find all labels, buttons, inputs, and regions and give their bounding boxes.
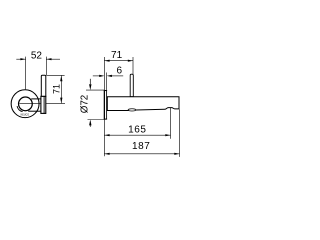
wire tube top line left view — [31, 98, 41, 100]
dimension 71 right view line and arrows — [104, 60, 133, 62]
spout circle left view — [19, 97, 33, 111]
dimension 187 line and arrows — [104, 153, 179, 155]
svg-text:165: 165 — [128, 125, 146, 136]
node centerline left view — [20, 102, 66, 104]
svg-text:52: 52 — [31, 50, 43, 61]
dimension 6 extension line — [106, 73, 108, 91]
dimension 71 right view extension lines — [103, 57, 105, 90]
dimension 165 extension lines — [103, 120, 105, 157]
lever handle right view — [130, 74, 133, 96]
dimension O72 line and arrows — [89, 79, 91, 84]
wall flange plate right view — [103, 90, 105, 119]
body block left view — [41, 96, 46, 113]
cartridge dome under spout — [128, 109, 136, 111]
dimension 52 line and arrows — [16, 58, 25, 60]
dimension 71 left view extension line top — [46, 74, 64, 76]
svg-text:71: 71 — [52, 84, 62, 94]
dimension 187 extension line — [179, 109, 181, 156]
dimension 71 left view line and arrows — [60, 75, 62, 103]
svg-text:Ø72: Ø72 — [80, 95, 91, 114]
svg-text:187: 187 — [132, 141, 150, 152]
svg-text:71: 71 — [111, 50, 123, 61]
dimension 6 line and arrows — [93, 75, 100, 77]
svg-text:KEUCO: KEUCO — [21, 113, 30, 116]
svg-text:6: 6 — [117, 65, 123, 76]
dimension O72 extension lines — [86, 89, 105, 91]
lever handle left view — [41, 75, 46, 96]
dimension 52 extension lines — [25, 57, 27, 90]
spout body right view — [107, 97, 179, 111]
tube end bevel arc — [17, 106, 23, 112]
flange circle O72 left view — [11, 90, 39, 118]
wire tube bottom line left view — [28, 110, 41, 112]
dimension 165 line and arrows — [104, 134, 170, 136]
body joint line left view — [43, 96, 45, 113]
